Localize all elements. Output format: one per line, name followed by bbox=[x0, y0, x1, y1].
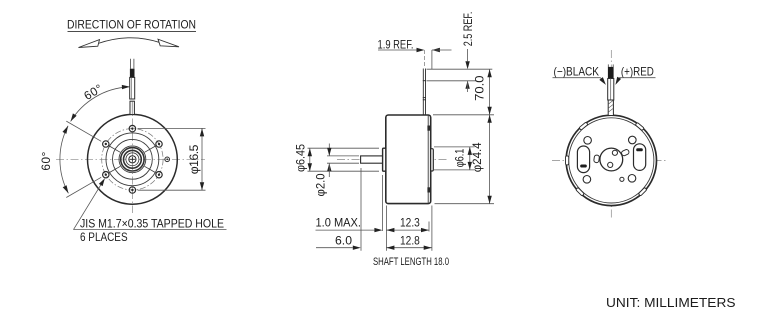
end cap seam bbox=[427, 116, 429, 204]
bearing ring r8.9 thick bbox=[123, 150, 141, 168]
svg-text:60°: 60° bbox=[39, 151, 53, 170]
svg-text:2.5 REF.: 2.5 REF. bbox=[461, 12, 475, 47]
front bushing bbox=[383, 148, 386, 171]
tapped hole 150deg bbox=[103, 141, 109, 147]
svg-text:φ6.1: φ6.1 bbox=[453, 148, 467, 167]
crimp tab lower bbox=[427, 187, 430, 192]
tapped hole 210deg bbox=[103, 172, 109, 178]
tapped hole bottom bbox=[129, 187, 135, 193]
extension line seam bbox=[428, 222, 430, 232]
body top extension line bbox=[433, 114, 494, 116]
front view lead wire bbox=[130, 59, 135, 115]
title DIRECTION OF ROTATION bbox=[67, 18, 196, 32]
svg-text:6 PLACES: 6 PLACES bbox=[80, 230, 128, 244]
rear housing inner rim bbox=[569, 118, 654, 203]
tapped hole 330deg bbox=[156, 172, 162, 178]
rivet upper right bbox=[612, 150, 617, 155]
vent hole upper left bbox=[584, 137, 592, 145]
spoke 330deg bbox=[145, 166, 156, 172]
tapped hole 30deg bbox=[156, 141, 162, 147]
label (-)BLACK bbox=[553, 64, 608, 86]
front view centerline horizontal bbox=[56, 158, 205, 160]
brush slot left bbox=[577, 146, 589, 173]
brush slot right bbox=[634, 144, 646, 171]
bearing ring r11.7 thick bbox=[121, 148, 144, 171]
brush terminal left bbox=[580, 165, 587, 168]
svg-text:φ16.5: φ16.5 bbox=[187, 144, 201, 174]
rear view centerline vertical bbox=[610, 50, 612, 219]
shaft bbox=[361, 156, 383, 163]
angle extension line 210deg bbox=[66, 177, 101, 197]
svg-text:6.0: 6.0 bbox=[335, 234, 352, 248]
small hole lower center bbox=[620, 177, 624, 181]
vent hole upper right bbox=[629, 136, 637, 144]
dimension phi6.1 bbox=[434, 147, 475, 170]
dimension 1.0 MAX bbox=[316, 215, 383, 232]
boss circle r20 bbox=[112, 139, 152, 179]
vent hole lower left bbox=[583, 176, 591, 184]
extension line body right bbox=[431, 206, 433, 251]
rotation direction double arrow bbox=[79, 38, 180, 48]
rivet lower bbox=[608, 162, 613, 167]
rim notch 50deg bbox=[635, 122, 644, 130]
shaft circle r3.6 bbox=[129, 156, 136, 163]
dimension 1.9 REF bbox=[378, 37, 452, 69]
dimension 70.0 bbox=[473, 69, 492, 115]
angle dimension arc upper 60deg bbox=[69, 85, 130, 123]
rear housing outer circle bbox=[566, 115, 656, 205]
svg-text:12.8: 12.8 bbox=[400, 234, 420, 248]
spoke 150deg bbox=[110, 146, 121, 152]
angle extension line 150deg bbox=[66, 121, 101, 141]
angle dimension arc lower 60deg bbox=[60, 125, 70, 195]
pilot hole right bbox=[165, 157, 170, 162]
dimension 12.3 bbox=[386, 215, 429, 232]
svg-text:SHAFT LENGTH 18.0: SHAFT LENGTH 18.0 bbox=[373, 256, 449, 268]
leader JIS tapped hole bbox=[74, 177, 227, 230]
brush terminal right bbox=[636, 148, 643, 151]
wire top extension line bbox=[427, 68, 493, 70]
extension line shaft tip bbox=[360, 168, 362, 251]
front view centerline vertical bbox=[131, 104, 133, 213]
crimp tab upper bbox=[427, 126, 430, 131]
dimension 12.8 bbox=[386, 234, 431, 250]
svg-text:φ2.0: φ2.0 bbox=[314, 173, 328, 196]
bearing tab left bbox=[594, 155, 600, 163]
extension line body left bbox=[385, 206, 387, 251]
svg-text:12.3: 12.3 bbox=[400, 215, 420, 229]
rim notch 315deg bbox=[638, 187, 647, 196]
vent hole lower right bbox=[628, 175, 636, 183]
bearing holder circle rear bbox=[600, 148, 623, 171]
spoke 30deg bbox=[145, 146, 156, 152]
extension line bushing face bbox=[382, 175, 384, 231]
spoke 210deg bbox=[110, 166, 121, 172]
rim notch 180deg bbox=[566, 156, 569, 165]
motor front outer circle bbox=[87, 114, 177, 204]
svg-text:φ6.45: φ6.45 bbox=[294, 144, 308, 172]
svg-text:JIS M1.7×0.35 TAPPED HOLE: JIS M1.7×0.35 TAPPED HOLE bbox=[80, 217, 224, 231]
rear lead wires bbox=[608, 64, 614, 115]
dimension phi6.45 bbox=[294, 144, 380, 172]
dimension phi24.4 bbox=[470, 115, 492, 204]
front face circle r26 bbox=[106, 133, 159, 186]
shaft ring r6.5 bbox=[126, 153, 139, 166]
rear view centerline horizontal bbox=[552, 159, 668, 161]
body bottom extension line bbox=[435, 203, 495, 205]
dimension phi16.5 bbox=[138, 128, 206, 190]
dimension phi2.0 bbox=[314, 144, 360, 197]
side view lead wires bbox=[423, 69, 426, 116]
svg-text:(+)RED: (+)RED bbox=[621, 64, 654, 78]
tapped hole top bbox=[129, 125, 135, 131]
bolt pitch circle (dash-dot) bbox=[102, 129, 163, 190]
svg-text:1.0 MAX.: 1.0 MAX. bbox=[316, 215, 362, 229]
rim notch 225deg bbox=[576, 187, 585, 196]
bearing tab right bbox=[621, 149, 630, 157]
side view centerline bbox=[337, 159, 449, 161]
label (+)RED bbox=[613, 64, 655, 86]
rear bearing boss bbox=[431, 149, 434, 171]
dimension 2.5 REF bbox=[461, 12, 475, 92]
svg-text:DIRECTION OF ROTATION: DIRECTION OF ROTATION bbox=[67, 18, 196, 32]
svg-text:(−)BLACK: (−)BLACK bbox=[554, 64, 600, 78]
svg-text:70.0: 70.0 bbox=[473, 75, 487, 101]
dimension 6.0 bbox=[316, 234, 361, 250]
motor body side view bbox=[386, 115, 431, 204]
wire crimp extension line bbox=[427, 80, 477, 82]
svg-text:UNIT: MILLIMETERS: UNIT: MILLIMETERS bbox=[606, 296, 736, 310]
svg-text:1.9 REF.: 1.9 REF. bbox=[378, 37, 414, 51]
bearing ring r13.4 bbox=[119, 146, 146, 173]
rim notch 129deg bbox=[579, 122, 588, 130]
shaft center cross bbox=[130, 157, 135, 162]
